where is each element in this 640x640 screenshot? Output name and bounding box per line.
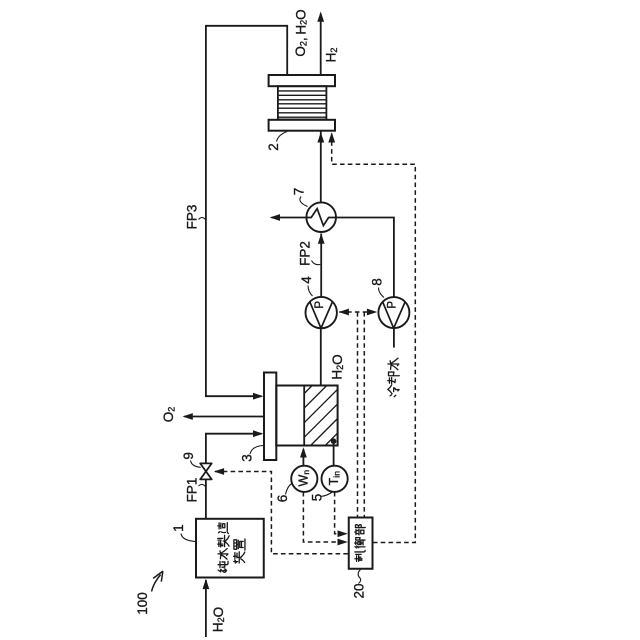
pump 4 chevron	[310, 302, 333, 328]
svg-text:P: P	[387, 301, 399, 309]
separator 2 bottom flange	[269, 120, 335, 131]
stack 3 hatching	[304, 386, 337, 446]
stack 3 temperature tap dot	[331, 438, 337, 444]
wire sensor T to stack dot	[333, 441, 335, 466]
leader 20	[358, 570, 361, 584]
wire H2 outlet arrow	[320, 14, 322, 76]
wire condensate drain arrow from heat exchanger 7	[272, 217, 307, 219]
dashed control drop to pump 4	[357, 312, 359, 517]
arrowhead into separator 2 (control)	[328, 132, 335, 142]
wire FP3 return line from separator 2 to stack	[206, 26, 287, 396]
separator 2 coil body	[278, 86, 327, 119]
svg-text:8: 8	[369, 278, 384, 286]
wire FP1 from valve 9 into stack lower port	[206, 434, 262, 464]
wire cooling water supply into pump 8	[393, 328, 395, 347]
dashed signal wire from sensor T to control unit	[335, 492, 347, 534]
dashed control wire between pumps 4 and 8	[339, 311, 376, 313]
leader 9	[191, 461, 201, 468]
wire FP2 from pump 4 up into heat exchanger 7	[320, 234, 322, 298]
pump 8 chevron	[383, 302, 405, 328]
sensor W circle 6	[291, 466, 317, 492]
leader 5	[321, 492, 334, 497]
separator 2 coil lines	[278, 91, 327, 117]
pure water production device box 1	[196, 519, 264, 578]
svg-text:2: 2	[266, 143, 281, 151]
leader 2	[277, 132, 288, 142]
svg-text:20: 20	[351, 583, 366, 598]
heat exchanger 7 zigzag	[307, 209, 336, 226]
stack 3 end plate	[264, 373, 276, 461]
heat exchanger 7 circle	[306, 202, 336, 232]
wire cooling water from pump 8 into heat exchanger 7	[336, 218, 394, 298]
wire from device 1 up to valve 9	[205, 480, 207, 519]
svg-text:4: 4	[299, 276, 314, 284]
svg-text:1: 1	[171, 524, 186, 532]
leader FP2	[312, 261, 321, 265]
wire O2 outlet arrow from stack	[184, 416, 264, 418]
svg-text:3: 3	[240, 454, 255, 462]
arrowhead sensor T into control unit	[338, 530, 348, 537]
svg-text:O2, H2O: O2, H2O	[293, 9, 309, 56]
svg-text:100: 100	[135, 592, 150, 615]
sensor T circle 5	[322, 466, 348, 492]
dashed control wire to separator 2 heater	[332, 134, 416, 543]
dashed signal wire from sensor W to control unit	[303, 492, 346, 542]
cooling water kanji label 冷却水	[388, 358, 399, 370]
wire sensor W to stack bottom	[302, 449, 304, 466]
leader 7	[300, 197, 308, 207]
leader 4	[308, 286, 313, 297]
dashed control wire to valve 9	[215, 472, 349, 554]
leader arrow 100	[152, 571, 163, 591]
leader 6	[286, 484, 292, 495]
leader FP3	[199, 218, 206, 220]
arrowhead into pump 4 (control)	[339, 309, 349, 316]
pump P 4 circle	[306, 297, 337, 328]
leader FP1	[199, 484, 206, 486]
leader 8	[379, 288, 385, 298]
arrowhead sensor W into control unit	[338, 539, 348, 546]
leader 3	[250, 446, 264, 455]
separator 2 top flange	[269, 75, 335, 86]
device 1 kanji line2 装置	[234, 552, 245, 563]
valve 9 bowtie	[200, 463, 212, 479]
stack 3 cell body	[276, 386, 337, 446]
wire H2O feed into device 1	[205, 580, 207, 637]
wire from stack 3 up to pump 4	[320, 328, 322, 385]
control unit kanji 制御部	[355, 525, 365, 535]
svg-text:6: 6	[275, 495, 290, 503]
svg-text:FP2: FP2	[297, 241, 312, 266]
control unit box 20	[349, 518, 373, 569]
leader 1	[181, 534, 196, 542]
dashed control drop to pump 8	[363, 312, 365, 517]
svg-text:FP1: FP1	[185, 478, 200, 503]
arrowhead into pump 8 (control)	[367, 309, 377, 316]
svg-text:P: P	[314, 301, 326, 309]
arrowhead into valve 9 (control)	[214, 468, 224, 475]
device 1 kanji line1 純水製造	[218, 561, 228, 572]
svg-text:7: 7	[292, 188, 307, 196]
pump P 8 circle	[378, 297, 409, 328]
stack 3 membrane divider	[303, 386, 305, 446]
svg-text:5: 5	[309, 494, 324, 502]
wire from heat exchanger 7 up to separator 2	[320, 131, 322, 203]
svg-text:FP3: FP3	[185, 205, 200, 230]
svg-text:9: 9	[181, 452, 196, 460]
